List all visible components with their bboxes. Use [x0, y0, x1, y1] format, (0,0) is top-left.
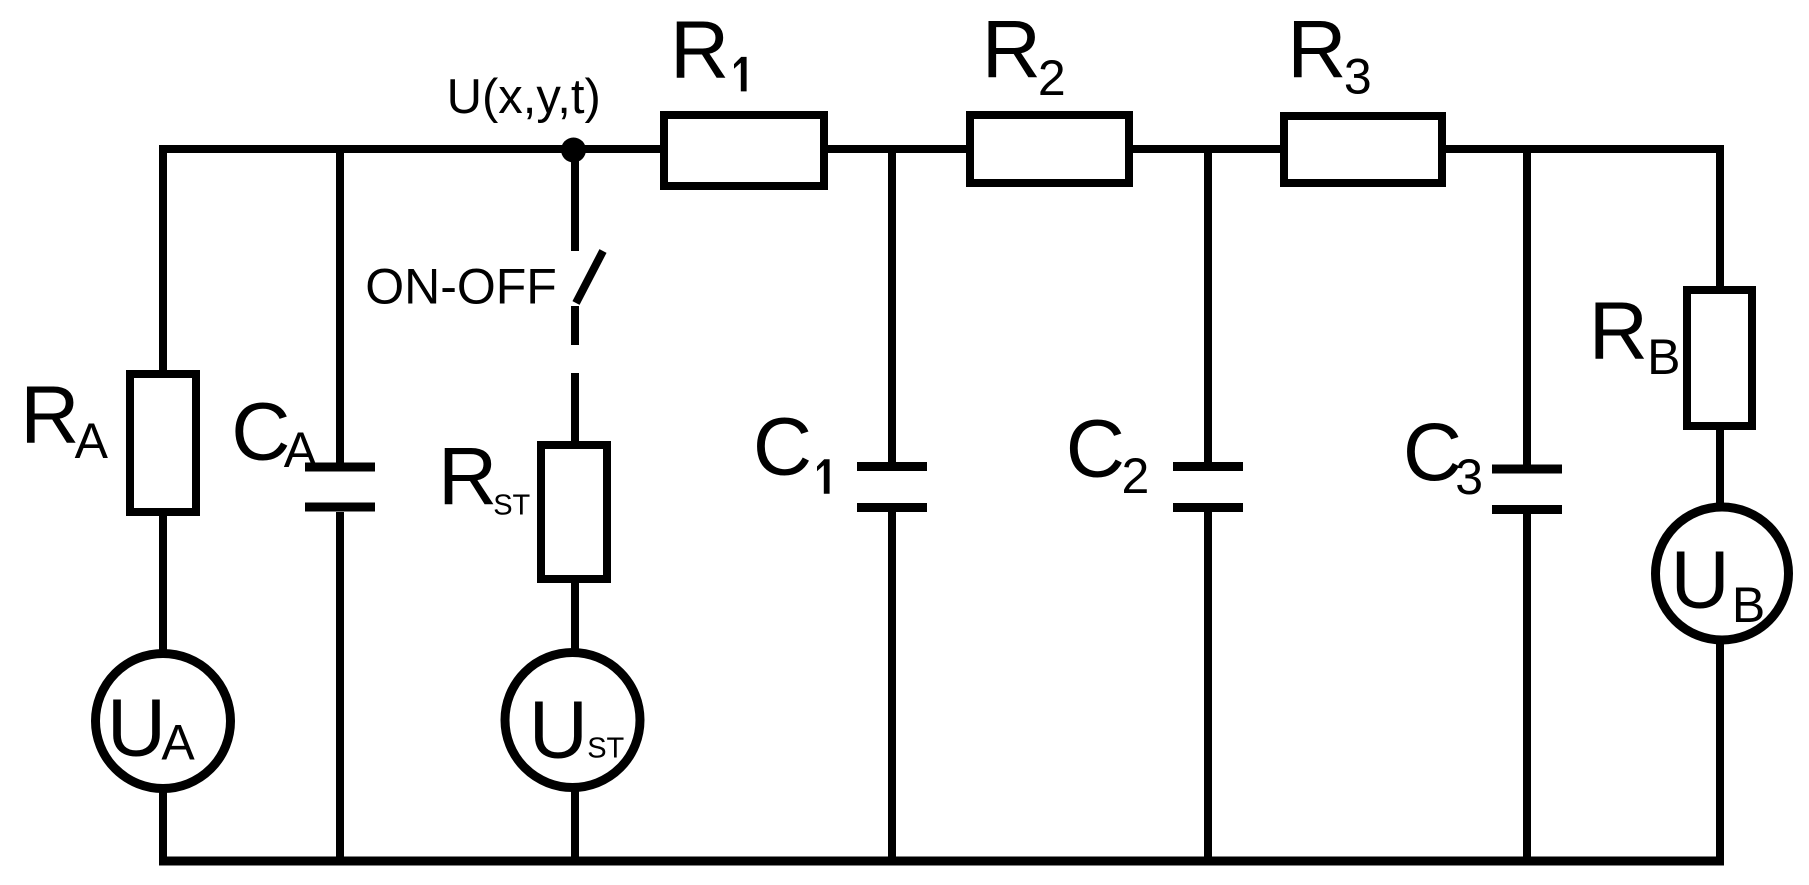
svg-text:2: 2	[1122, 448, 1150, 504]
svg-text:C: C	[1403, 407, 1462, 498]
svg-text:2: 2	[1038, 50, 1066, 106]
svg-text:R: R	[20, 370, 79, 461]
svg-text:ST: ST	[587, 733, 624, 765]
svg-text:A: A	[284, 422, 318, 478]
svg-text:B: B	[1732, 577, 1765, 633]
svg-text:C: C	[753, 402, 812, 493]
svg-text:R: R	[438, 432, 497, 523]
svg-text:R: R	[1287, 4, 1346, 95]
svg-text:U: U	[107, 683, 166, 774]
svg-text:A: A	[161, 714, 195, 770]
svg-text:3: 3	[1344, 48, 1372, 104]
svg-text:ON-OFF: ON-OFF	[365, 259, 557, 315]
svg-text:ST: ST	[493, 490, 530, 522]
svg-text:U: U	[529, 685, 588, 776]
svg-text:3: 3	[1455, 449, 1483, 505]
svg-text:U: U	[1671, 535, 1730, 626]
svg-text:C: C	[1066, 403, 1125, 494]
svg-text:R: R	[670, 5, 729, 96]
svg-text:R: R	[982, 4, 1041, 95]
svg-text:B: B	[1647, 329, 1680, 385]
svg-text:R: R	[1589, 286, 1648, 377]
svg-text:C: C	[231, 387, 290, 478]
svg-text:A: A	[75, 413, 109, 469]
svg-text:U(x,y,t): U(x,y,t)	[447, 70, 601, 124]
